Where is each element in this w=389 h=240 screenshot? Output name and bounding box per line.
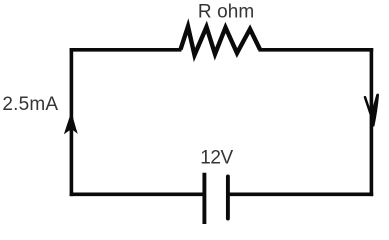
svg-text:R ohm: R ohm xyxy=(198,1,254,22)
battery plate left (long) xyxy=(202,173,206,224)
current arrowhead up (left side) xyxy=(64,111,78,134)
battery plate right (short) xyxy=(226,177,230,219)
svg-text:12V: 12V xyxy=(200,148,233,169)
resistor R xyxy=(181,27,261,56)
wire top-left segment xyxy=(70,48,182,52)
wire top-right segment xyxy=(259,48,374,52)
wire bottom-left segment xyxy=(70,192,205,196)
svg-text:2.5mA: 2.5mA xyxy=(2,94,58,115)
wire left side xyxy=(70,48,74,196)
wire right side xyxy=(370,48,374,196)
wire bottom-right segment xyxy=(228,192,373,196)
current arrowhead down (right side) xyxy=(365,95,378,125)
